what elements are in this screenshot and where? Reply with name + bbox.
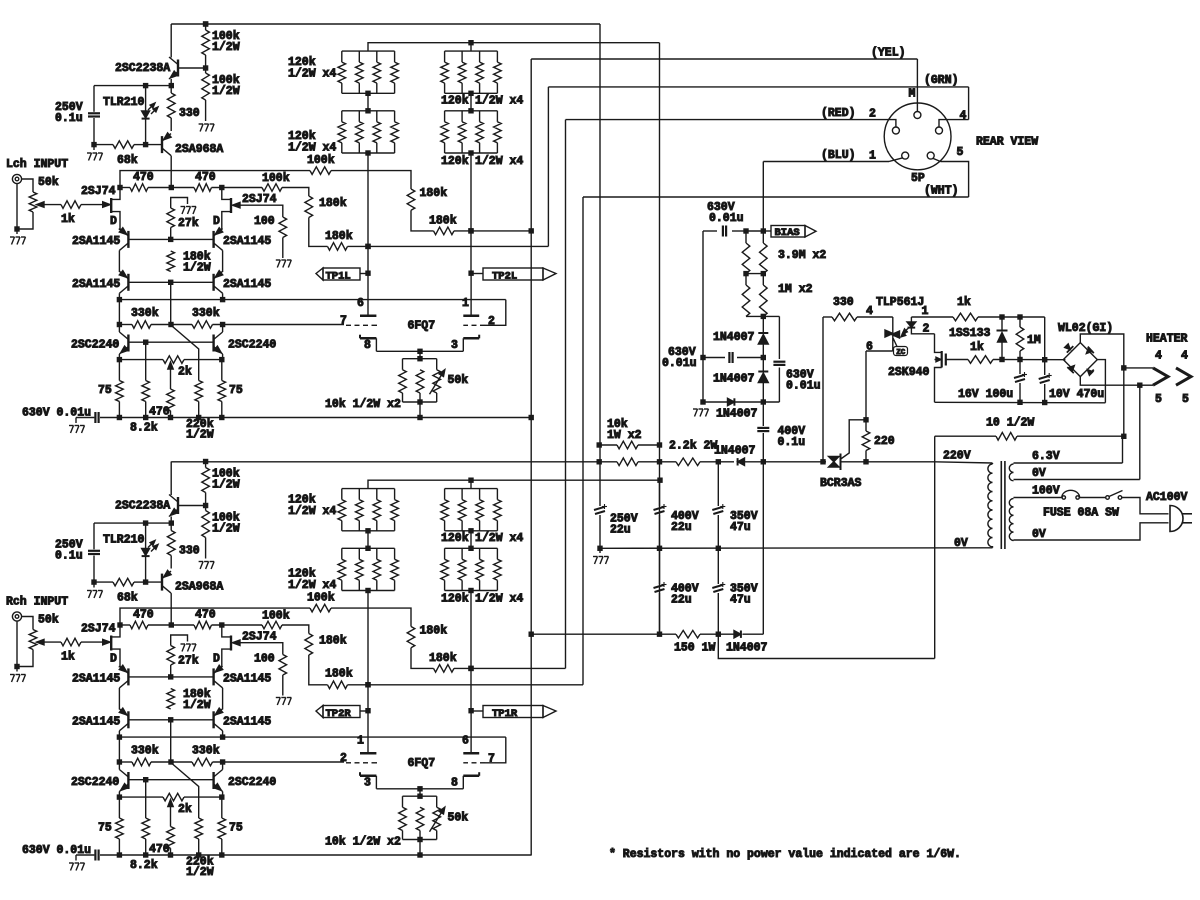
resistor 27k: [167, 646, 199, 668]
capacitor 250V 0.1u L: [55, 86, 100, 145]
resistor 100 gate: [254, 215, 287, 238]
wire B+ rail Lch: [171, 21, 600, 26]
resistor bank 120k x4 B1: [441, 51, 524, 107]
wire 2238 collector: [170, 24, 172, 58]
svg-text:1N4007: 1N4007: [713, 373, 755, 386]
Rch INPUT label: [6, 596, 68, 609]
svg-text:TLR210: TLR210: [103, 96, 145, 109]
svg-text:1/2W: 1/2W: [183, 699, 211, 712]
wire bridge bottom to heater2: [1080, 377, 1142, 388]
wire B+ rail Rch: [171, 461, 599, 463]
wire 330k row r: [213, 322, 345, 327]
net BIAS pointer: [763, 226, 816, 239]
wire jack to pot: [22, 617, 33, 630]
ground 100k: [199, 124, 215, 132]
capacitor 16V 100u: [958, 360, 1027, 406]
JFET Q1a 2SJ74: [81, 185, 120, 230]
resistor 180k d Rch: [325, 668, 353, 689]
wire YEL vertical: [529, 59, 534, 856]
resistor bank 120k x4 B2: [441, 111, 524, 168]
resistor 470 wiper: [149, 827, 174, 857]
ground jack: [10, 237, 26, 245]
svg-text:1/2W: 1/2W: [212, 523, 240, 536]
svg-text:2SC2240: 2SC2240: [71, 776, 119, 789]
svg-text:0V: 0V: [1032, 467, 1046, 480]
resistor 100k 1/2W lower L: [202, 68, 240, 121]
svg-text:100k: 100k: [307, 592, 335, 605]
resistor 1M left: [742, 285, 750, 316]
capacitor 400V 0.1u: [757, 402, 805, 462]
resistor 470 a: [130, 171, 154, 191]
wire RED line: [566, 107, 892, 121]
wire bank A link: [365, 91, 370, 114]
wire 180k row to YEL: [454, 228, 534, 233]
wire pin5 to WHT: [941, 162, 969, 198]
svg-text:1M: 1M: [1027, 334, 1041, 347]
wire 1k to caps: [978, 314, 1045, 359]
svg-text:1/2W: 1/2W: [186, 429, 214, 442]
svg-text:0.01u: 0.01u: [709, 212, 744, 225]
svg-text:REAR VIEW: REAR VIEW: [976, 136, 1038, 149]
transistor 2SC2240 R right: [214, 770, 277, 792]
svg-text:22u: 22u: [671, 521, 692, 534]
ground 100k: [199, 562, 215, 570]
svg-text:TP1R: TP1R: [492, 708, 518, 720]
svg-text:10k 1/2W x2: 10k 1/2W x2: [325, 398, 401, 411]
svg-text:330: 330: [833, 296, 854, 309]
ground 68k: [87, 153, 103, 161]
svg-text:8: 8: [364, 339, 371, 352]
wire col right b: [220, 293, 225, 302]
resistor 1M TLP: [1016, 317, 1041, 360]
svg-text:50k: 50k: [38, 614, 59, 627]
resistor 10k a L: [399, 370, 407, 393]
wire 220V line: [935, 450, 993, 464]
svg-text:1N4007: 1N4007: [713, 331, 755, 344]
transistor 2SA968A R: [162, 570, 223, 593]
ground 27k: [181, 207, 197, 215]
resistor bank 120k x4 A2: [288, 111, 398, 155]
resistor 100k upper Lch: [307, 154, 335, 174]
wire fuse to switch: [1080, 497, 1106, 499]
wire diagonal to 220k: [173, 764, 199, 818]
svg-text:0V: 0V: [1032, 528, 1046, 541]
wire BLU line: [763, 149, 889, 163]
wire gate2 to 100: [239, 205, 283, 217]
capacitor 400V 22u a: [654, 480, 699, 548]
wire cathode rail: [100, 852, 531, 857]
svg-text:2SA1145: 2SA1145: [223, 235, 271, 248]
resistor bank 120k x4 B4: [441, 548, 524, 605]
label 5P: [911, 172, 925, 185]
tube pin 7 grid right dashes: [463, 753, 495, 766]
wire Rch B+ row: [531, 632, 676, 637]
JFET Q2a 2SJ74: [81, 623, 120, 668]
svg-text:75: 75: [98, 384, 112, 397]
wire col left b: [117, 293, 122, 324]
svg-text:22u: 22u: [610, 524, 631, 537]
wire bank B3 feed: [470, 480, 472, 488]
transistor 2SA968A L: [162, 133, 223, 156]
wire gate row: [993, 357, 1065, 363]
svg-text:TP2R: TP2R: [326, 708, 352, 720]
diode 1SS133: [949, 317, 1008, 360]
wire bridge left: [1063, 359, 1065, 361]
wire block bottom: [403, 393, 437, 418]
tube pin 7 grid left dashes: [340, 315, 377, 328]
wire 2238 collector: [170, 462, 172, 496]
bridge rectifier WL02(GI): [1058, 322, 1113, 377]
svg-text:Lch INPUT: Lch INPUT: [6, 158, 68, 171]
wire col left a: [118, 666, 120, 710]
capacitor 250V 0.1u R: [55, 523, 100, 582]
wire 2238 base: [178, 503, 208, 508]
wire BLU vertical: [762, 162, 764, 232]
wire 68k left: [91, 142, 113, 150]
tube cathode left pin 3: [360, 772, 376, 789]
wire GRN line: [548, 74, 968, 87]
wire 3.9M bottom row: [743, 271, 766, 276]
svg-text:6FQ7: 6FQ7: [408, 757, 436, 770]
svg-text:220V: 220V: [943, 450, 971, 463]
wire 1M bottom row: [746, 314, 779, 319]
resistor 27k: [167, 208, 199, 230]
svg-text:1: 1: [922, 305, 929, 318]
wire 100V line: [1014, 485, 1062, 498]
input jack J1: [12, 174, 21, 183]
wire 27k to base row: [170, 228, 172, 240]
ground 100: [276, 698, 292, 706]
ground jack: [10, 675, 26, 683]
wire 10ohm left down: [934, 436, 936, 658]
svg-text:330k: 330k: [131, 745, 159, 758]
svg-text:TLP561J: TLP561J: [876, 296, 924, 309]
resistor 180k 1/2W mid: [167, 688, 211, 712]
pot 2k wiper: [168, 800, 173, 827]
svg-text:22u: 22u: [671, 594, 692, 607]
svg-text:WL02(GI): WL02(GI): [1058, 322, 1113, 335]
svg-text:330k: 330k: [192, 307, 220, 320]
tube pin 2 grid right dashes: [463, 315, 495, 328]
diode 1N4007 bias lower: [713, 358, 768, 403]
wire rail left: [76, 855, 94, 861]
MOSFET 2SK940: [888, 334, 968, 403]
svg-text:5: 5: [1182, 393, 1189, 406]
svg-text:100: 100: [254, 215, 275, 228]
transistor 2SA1145 R1 right: [214, 665, 272, 688]
svg-text:47u: 47u: [730, 521, 751, 534]
capacitor 350V 47u a: [712, 462, 757, 549]
transistor 2SC2238A R: [115, 495, 178, 517]
svg-text:120k: 120k: [441, 95, 469, 108]
wire 180k row to RED: [454, 666, 566, 671]
wire to 1N4007: [700, 459, 734, 464]
resistor 220k 1/2W: [186, 818, 214, 879]
svg-text:1M x2: 1M x2: [778, 283, 813, 296]
capacitor 630V 0.01u mid: [662, 346, 766, 370]
label 10k 1/2W x2 L: [325, 398, 401, 411]
resistor 3.9M left: [742, 231, 750, 285]
resistor 330k right: [192, 745, 220, 766]
wire 27k to base row: [170, 665, 172, 677]
svg-text:330: 330: [179, 545, 200, 558]
label 10k 1W x2: [607, 418, 642, 442]
resistor 8.2k: [130, 780, 158, 872]
wire bank feed rail Rch: [368, 478, 663, 489]
svg-text:2k: 2k: [178, 803, 192, 816]
transistor 2SA1145 L2 left: [72, 271, 128, 294]
svg-text:1k: 1k: [970, 341, 984, 354]
opto ZC box: [893, 338, 908, 357]
triac BCR3AS: [820, 454, 862, 491]
wire x703 vertical: [700, 231, 705, 405]
wire 330k mid: [151, 322, 192, 327]
wire gate2 to 100: [239, 643, 283, 655]
footnote: [609, 848, 961, 861]
svg-text:7: 7: [488, 753, 495, 766]
label FUSE 08A SW: [1043, 507, 1119, 520]
wire rail left: [76, 418, 94, 424]
resistor 10k 1W a: [617, 441, 638, 449]
diode 1N4007 PS: [714, 445, 766, 466]
resistor 330k left: [131, 307, 159, 328]
wire block top: [403, 796, 437, 807]
ground bias: [693, 409, 709, 417]
wire 68k left: [91, 579, 113, 587]
wire 180k c down: [309, 218, 328, 247]
switch SW: [1106, 491, 1123, 500]
wire bank B feed: [470, 43, 472, 51]
svg-text:3.9M x2: 3.9M x2: [778, 249, 826, 262]
svg-text:1/2W x4: 1/2W x4: [288, 505, 336, 518]
svg-text:1SS133: 1SS133: [949, 327, 991, 340]
svg-text:75: 75: [98, 822, 112, 835]
svg-text:50k: 50k: [448, 812, 469, 825]
resistor 10k 1W b: [597, 458, 663, 466]
svg-text:330: 330: [179, 107, 200, 120]
resistor 180k b Lch: [429, 215, 457, 235]
svg-text:1W x2: 1W x2: [607, 429, 642, 442]
wire bank A3 link: [365, 528, 370, 551]
diode 1N4007 Rch: [726, 631, 768, 655]
wire WHT line: [583, 185, 969, 198]
svg-text:2SA1145: 2SA1145: [72, 673, 120, 686]
svg-text:8.2k: 8.2k: [130, 422, 158, 435]
svg-text:1: 1: [462, 297, 469, 310]
svg-text:ZC: ZC: [896, 349, 906, 357]
resistor 330k left: [131, 745, 159, 766]
resistor bank 120k x4 A4: [288, 548, 398, 592]
svg-text:TLR210: TLR210: [103, 534, 145, 547]
wire 6.3V 0V: [1014, 467, 1140, 480]
wire mid col down: [170, 282, 172, 324]
wire 1k to gate: [81, 202, 110, 208]
wire bank B down: [468, 150, 473, 273]
transformer core: [1001, 461, 1005, 549]
wire row: [148, 622, 194, 627]
JFET Q2b 2SJ74: [213, 625, 277, 668]
wire heater2 down: [1139, 385, 1141, 479]
svg-text:1/2W: 1/2W: [212, 85, 240, 98]
svg-text:BCR3AS: BCR3AS: [820, 477, 862, 490]
svg-text:220: 220: [874, 435, 895, 448]
diode 1N4007 bias horiz: [716, 398, 758, 420]
label 0V secondary: [1032, 528, 1046, 541]
opto light arrows: [901, 328, 909, 337]
wire switch to plug: [1122, 498, 1168, 514]
label HEATER: [1146, 333, 1188, 346]
resistor 8.2k: [130, 342, 158, 434]
opto triac side: [866, 317, 900, 354]
resistor 1M right: [760, 274, 813, 317]
wire bias node: [743, 228, 766, 233]
svg-text:2: 2: [488, 315, 495, 328]
wire 180k corner: [411, 210, 434, 231]
ground 27k: [181, 644, 197, 652]
svg-text:D: D: [110, 653, 117, 666]
svg-text:180k: 180k: [420, 625, 448, 638]
svg-text:180k: 180k: [325, 668, 353, 681]
wire base row 3: [128, 340, 213, 345]
wire 2238 emitter: [169, 79, 174, 88]
svg-text:2SJ74: 2SJ74: [242, 193, 277, 206]
svg-text:(YEL): (YEL): [871, 47, 906, 60]
wire col right a: [222, 250, 224, 272]
wire BCR to 220: [841, 459, 935, 464]
svg-text:2SC2240: 2SC2240: [71, 339, 119, 352]
svg-text:68k: 68k: [117, 592, 138, 605]
wire mid col down: [170, 720, 172, 762]
resistor 330 L: [167, 86, 199, 131]
wire grid row: [119, 736, 505, 738]
svg-text:(GRN): (GRN): [924, 74, 959, 87]
wire gate link: [840, 420, 866, 460]
svg-text:1/2W x4: 1/2W x4: [288, 68, 336, 81]
resistor 10k a R: [399, 807, 407, 830]
svg-text:10k 1/2W x2: 10k 1/2W x2: [325, 836, 401, 849]
svg-text:10V 470u: 10V 470u: [1049, 388, 1104, 401]
svg-text:1/2W x4: 1/2W x4: [475, 95, 523, 108]
svg-text:0.01u: 0.01u: [786, 380, 821, 393]
svg-text:470: 470: [133, 171, 154, 184]
wire cathode rail: [100, 415, 531, 420]
wire row to corner: [282, 188, 309, 197]
wire 2k row r: [184, 796, 222, 798]
wire grid row: [119, 299, 505, 301]
resistor 10 1/2W: [935, 417, 1124, 441]
ground 250V cap: [593, 548, 609, 564]
tube cathode right pin 3: [451, 335, 479, 352]
wire RED vertical: [565, 120, 567, 669]
transistor 2SA1145 R2 left: [72, 708, 128, 731]
svg-text:2SA1145: 2SA1145: [72, 716, 120, 729]
wire YEL line: [531, 47, 917, 60]
resistor bank 120k x4 B3: [441, 489, 524, 545]
svg-text:16V 100u: 16V 100u: [958, 388, 1013, 401]
svg-text:D: D: [213, 215, 220, 228]
svg-text:470: 470: [149, 843, 170, 856]
svg-text:1/2W: 1/2W: [212, 479, 240, 492]
wire 2238 base: [178, 65, 208, 70]
wire base row 1: [128, 237, 213, 242]
wire 180k row to GRN: [348, 244, 549, 249]
resistor 180k 1/2W mid: [167, 251, 211, 275]
svg-text:27k: 27k: [178, 655, 199, 668]
wire 330k mid: [151, 759, 192, 764]
svg-text:4: 4: [1155, 350, 1162, 363]
svg-text:180k: 180k: [429, 215, 457, 228]
potentiometer 2k: [163, 356, 192, 379]
wire PS row 445: [597, 442, 618, 447]
wire 2k row l: [119, 796, 163, 798]
svg-text:5P: 5P: [911, 172, 925, 185]
input jack J2: [12, 612, 21, 621]
pot 2k wiper: [168, 362, 173, 389]
svg-text:0.1u: 0.1u: [55, 550, 83, 563]
resistor 180k d Lch: [325, 230, 353, 250]
wire 2k row r: [184, 359, 222, 361]
svg-text:180k: 180k: [319, 197, 347, 210]
svg-text:2SA968A: 2SA968A: [175, 143, 223, 156]
transistor 2SC2240 R left: [71, 770, 128, 792]
svg-text:100: 100: [254, 653, 275, 666]
capacitor 350V 47u b: [712, 548, 757, 634]
resistor 180k a Rch: [407, 625, 447, 648]
svg-text:TP2L: TP2L: [492, 270, 517, 282]
svg-text:6FQ7: 6FQ7: [408, 319, 436, 332]
capacitor 630V 0.01u rail: [22, 844, 99, 861]
transistor 2SA1145 R2 right: [214, 708, 272, 731]
wire 330k row l: [117, 322, 132, 327]
wire 27k top bracket: [171, 198, 188, 209]
svg-text:2SA968A: 2SA968A: [175, 581, 223, 594]
wire 180k row to WHT: [348, 682, 584, 687]
svg-text:3: 3: [364, 777, 371, 790]
transformer 100V winding: [1009, 499, 1013, 541]
resistor 100k 1/2W upper R: [202, 459, 240, 506]
transistor 2SC2238A L: [115, 57, 178, 79]
resistor 1k upper: [953, 296, 978, 321]
capacitor 250V 22u: [594, 462, 638, 549]
svg-text:4: 4: [1181, 350, 1188, 363]
LED TLR210 R: [103, 523, 158, 582]
wire cathode common: [376, 786, 463, 799]
Lch INPUT label: [6, 158, 68, 171]
svg-text:2SC2240: 2SC2240: [228, 776, 276, 789]
svg-text:TP1L: TP1L: [326, 270, 351, 282]
svg-text:4: 4: [866, 305, 873, 318]
wire base row 1: [128, 674, 213, 679]
wire pot bottom: [17, 212, 33, 229]
LED TLR210 L: [103, 86, 158, 145]
tube cathode left pin 8: [360, 335, 376, 352]
resistor 75 left: [98, 797, 123, 855]
wire 2240 col left: [117, 762, 122, 800]
wire 2238 emitter: [169, 517, 174, 526]
svg-text:27k: 27k: [178, 217, 199, 230]
svg-text:180k: 180k: [319, 635, 347, 648]
wire 180k c down Rch: [309, 655, 328, 685]
wire pot bottom: [17, 650, 33, 667]
wire 330k row r: [213, 759, 345, 764]
resistor 100k fb: [262, 610, 290, 629]
pot wiper arrow: [37, 639, 62, 645]
connector 5P shell: [884, 103, 951, 170]
wire bridge right to rail: [1097, 360, 1105, 403]
resistor 220k 1/2W: [186, 381, 214, 442]
svg-text:0.01u: 0.01u: [662, 357, 697, 370]
wire 2240 col right: [219, 325, 224, 363]
